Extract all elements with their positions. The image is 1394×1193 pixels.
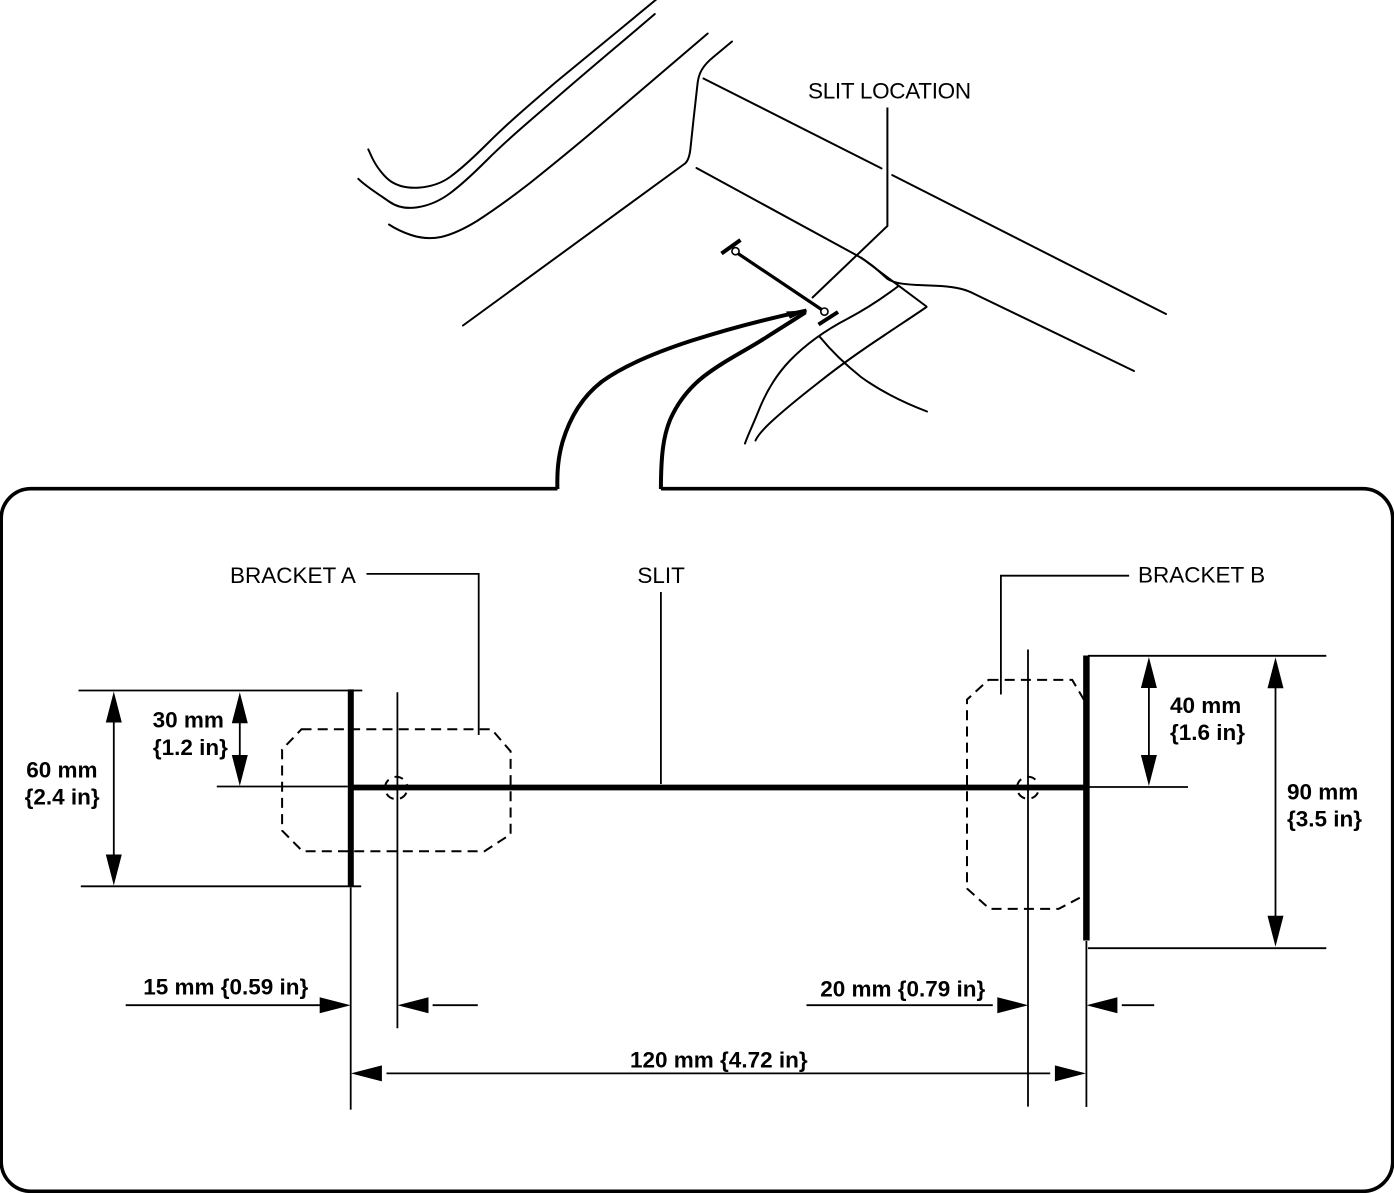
bracket B flange bar — [1083, 656, 1090, 941]
weld centerline A — [396, 692, 398, 1028]
40mm arrowheads — [1141, 657, 1157, 688]
BRACKET B leader line — [1001, 576, 1129, 695]
stepped pillar edge — [463, 42, 732, 326]
15mm arrowheads — [320, 997, 351, 1013]
big arrow lower stroke — [661, 312, 806, 489]
slit mark right end circle — [821, 308, 828, 315]
svg-text:60 mm: 60 mm — [26, 758, 97, 783]
dashed bracket A outline — [282, 729, 511, 851]
bracket B extension below — [1085, 941, 1087, 1107]
svg-text:90 mm: 90 mm — [1287, 780, 1358, 805]
extension line bottom of bracket A — [81, 885, 361, 887]
60mm dimension shaft — [113, 700, 115, 877]
dashed spot circle B — [1017, 777, 1039, 799]
short fold line — [861, 258, 927, 307]
svg-text:BRACKET B: BRACKET B — [1138, 562, 1265, 587]
extension line top of bracket B — [1088, 655, 1326, 657]
60mm arrowheads — [106, 692, 122, 723]
30mm arrowheads — [232, 692, 248, 723]
rocker panel top edge (broken at leader crossing) — [704, 79, 1167, 315]
90mm arrowheads — [1268, 657, 1284, 688]
svg-text:40 mm: 40 mm — [1170, 693, 1241, 718]
leader line from SLIT LOCATION to slit — [812, 108, 887, 299]
extension line slit level right — [1089, 786, 1188, 788]
svg-text:30 mm: 30 mm — [153, 708, 224, 733]
body sill upper seam line 2 with hook — [358, 14, 655, 208]
svg-text:SLIT: SLIT — [637, 563, 685, 588]
body sill upper seam line 1 with hook — [368, 0, 658, 188]
15mm dimension tails — [126, 1004, 321, 1006]
wheel arch contour A — [745, 286, 899, 444]
svg-text:{1.6 in}: {1.6 in} — [1170, 720, 1245, 745]
bracket A flange bar — [348, 689, 354, 887]
BRACKET A leader line — [367, 574, 479, 735]
svg-text:{2.4 in}: {2.4 in} — [25, 785, 100, 810]
svg-text:BRACKET A: BRACKET A — [230, 563, 356, 588]
svg-text:SLIT LOCATION: SLIT LOCATION — [808, 79, 971, 104]
extension line slit level left — [217, 786, 348, 788]
90mm dimension shaft — [1275, 665, 1277, 938]
slit mark right tick — [819, 312, 839, 325]
svg-text:{1.2 in}: {1.2 in} — [153, 735, 228, 760]
120mm dimension line — [387, 1072, 1051, 1074]
weld centerline B — [1027, 650, 1029, 1107]
bracket A extension below — [350, 887, 352, 1109]
SLIT leader line — [660, 592, 662, 784]
dashed spot circle A — [385, 777, 407, 799]
detail view rounded box border with gap for arrow — [1, 489, 1393, 1192]
slit line (thick) — [352, 785, 1086, 791]
extension line bottom of bracket B — [1088, 947, 1326, 949]
svg-text:{3.5 in}: {3.5 in} — [1287, 807, 1362, 832]
dashed bracket B outline — [967, 680, 1085, 909]
120mm arrowheads — [351, 1065, 382, 1081]
svg-text:20 mm {0.79 in}: 20 mm {0.79 in} — [820, 977, 985, 1002]
svg-text:15 mm {0.59 in}: 15 mm {0.59 in} — [143, 975, 308, 1000]
slit mark left end circle — [732, 248, 739, 255]
extension line top of bracket A — [79, 690, 363, 692]
body sill lower edge line with hook — [389, 34, 708, 239]
rocker panel seam with jog — [697, 168, 1135, 371]
big arrow head barb — [786, 310, 808, 319]
slit mark left tick — [722, 240, 741, 254]
big arrow upper stroke — [557, 311, 806, 489]
40mm dimension shaft — [1148, 665, 1150, 778]
crossing contour line — [820, 337, 928, 412]
20mm arrowheads — [997, 997, 1028, 1013]
30mm dimension shaft — [239, 700, 241, 780]
slit mark line — [738, 254, 822, 310]
20mm dimension tails — [807, 1004, 993, 1006]
wheel arch contour B — [756, 307, 927, 441]
svg-text:120 mm {4.72 in}: 120 mm {4.72 in} — [630, 1047, 808, 1072]
